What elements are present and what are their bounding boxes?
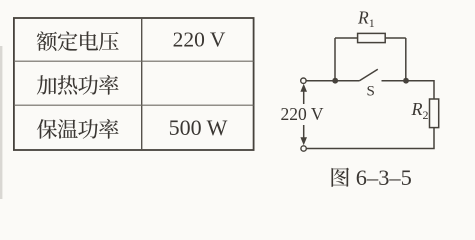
voltage arrow up — [303, 91, 305, 104]
svg-text:R1: R1 — [357, 7, 375, 30]
table cell text: 额定电压 — [37, 31, 119, 51]
wire below R2 to bottom corner — [306, 128, 434, 149]
svg-text:6–3–5: 6–3–5 — [356, 165, 412, 190]
svg-text:R2: R2 — [411, 99, 429, 122]
svg-text:500 W: 500 W — [169, 115, 228, 140]
table outer border — [14, 18, 254, 150]
caption: 图 6-3-5 — [331, 165, 411, 190]
voltage arrow down — [303, 125, 305, 138]
table row divider 1 — [14, 60, 254, 62]
table cell text: 加热功率 — [37, 75, 119, 95]
wire top branch right segment — [385, 37, 406, 39]
wire main line: terminal to switch pivot — [306, 80, 359, 82]
wire right branch down to R2 — [433, 80, 435, 99]
node junction left — [332, 78, 338, 84]
switch S blade (open) — [359, 69, 378, 81]
svg-text:220 V: 220 V — [281, 104, 324, 124]
wire right vertical of R1 branch — [405, 38, 407, 81]
wire left vertical of R1 branch — [334, 38, 336, 81]
svg-text:S: S — [367, 84, 375, 100]
resistor R1 — [358, 33, 386, 42]
terminal top left (open circle) — [301, 78, 306, 83]
table row divider 2 — [14, 104, 254, 106]
wire top branch left segment — [335, 37, 358, 39]
node junction right — [403, 78, 409, 84]
resistor R2 — [430, 99, 439, 128]
table cell text: 保温功率 — [37, 119, 119, 139]
wire switch right contact to corner — [382, 80, 435, 82]
table column divider — [141, 18, 143, 150]
terminal bottom left (open circle) — [301, 146, 306, 151]
scan edge shading left margin — [0, 46, 2, 199]
svg-text:220 V: 220 V — [173, 27, 226, 51]
